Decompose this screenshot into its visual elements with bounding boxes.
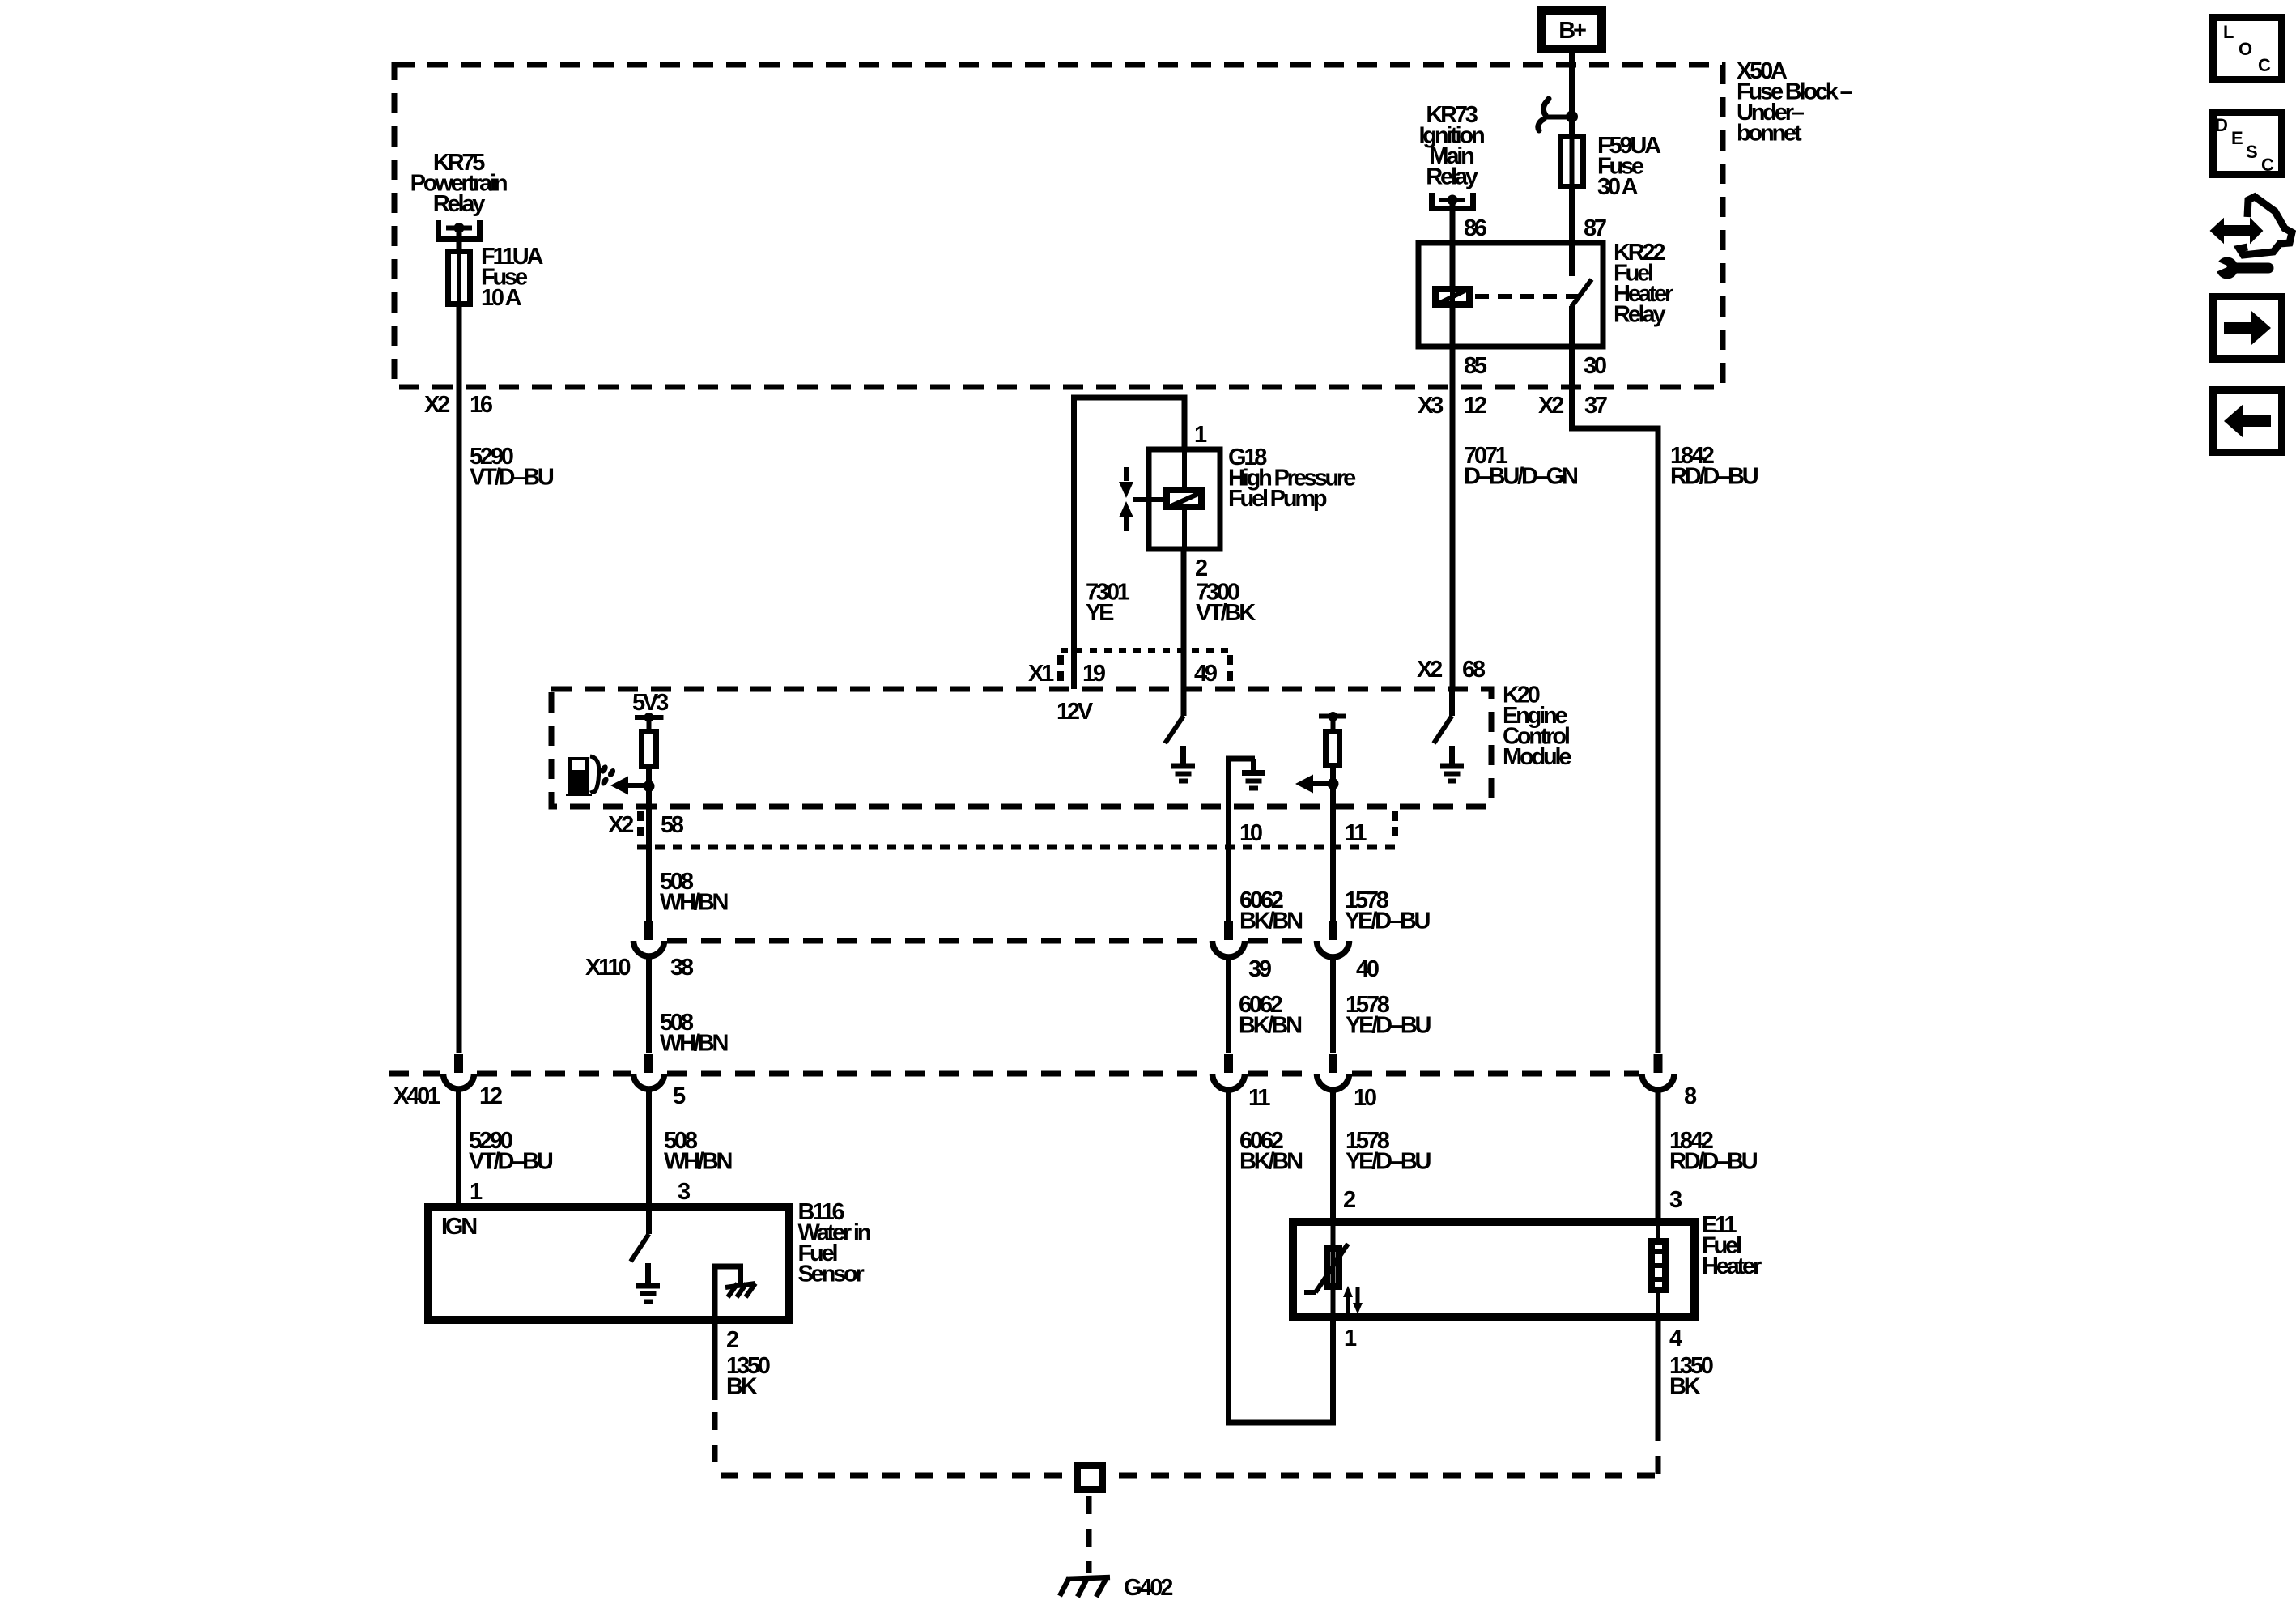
B116 chassis ground branch xyxy=(715,1266,755,1320)
svg-text:bonnet: bonnet xyxy=(1737,121,1802,147)
ground G402 chassis symbol xyxy=(1060,1577,1110,1597)
connector label X3 12 below fuse block xyxy=(1418,393,1486,419)
svg-text:11: 11 xyxy=(1248,1085,1270,1111)
legend icon forward arrow xyxy=(2213,297,2282,360)
svg-text:12: 12 xyxy=(1464,393,1486,419)
label X50A Fuse Block Underbonnet xyxy=(1737,58,1853,147)
wire 508 ECM pin 58 to X110 xyxy=(646,806,652,922)
pin 30 label xyxy=(1584,353,1606,379)
B+ battery terminal xyxy=(1542,11,1602,49)
ECM pull-up resistor (thermistor sense, pin 11) xyxy=(1319,712,1346,806)
svg-text:11: 11 xyxy=(1345,820,1367,846)
svg-text:85: 85 xyxy=(1464,353,1487,379)
dashed ground wire from B116 to G402 xyxy=(715,1412,1070,1475)
signal arrow (thermistor sense) xyxy=(1295,775,1333,794)
pin 2 label G18 xyxy=(1195,555,1207,581)
wire 1842 X401 to E11 pin 3 xyxy=(1656,1089,1661,1222)
svg-text:BK/BN: BK/BN xyxy=(1239,1013,1301,1039)
svg-text:X2: X2 xyxy=(424,392,449,418)
B116 internal switch xyxy=(631,1207,649,1262)
svg-text:L: L xyxy=(2223,22,2234,42)
pin 1 label B116 xyxy=(470,1179,483,1205)
wire label 6062 BK/BN (middle) xyxy=(1239,992,1301,1039)
pin 39 label xyxy=(1248,956,1272,982)
E11 thermistor arrows xyxy=(1343,1286,1363,1314)
svg-text:38: 38 xyxy=(670,955,694,981)
ECM X1 connector dotted box xyxy=(1061,650,1230,683)
wire label 7300 VT/BK xyxy=(1196,580,1256,627)
svg-text:Sensor: Sensor xyxy=(798,1262,865,1287)
svg-text:X401: X401 xyxy=(393,1083,440,1109)
svg-text:X1: X1 xyxy=(1028,661,1054,687)
wire label 1350 BK (left) xyxy=(726,1353,770,1400)
svg-text:G402: G402 xyxy=(1124,1575,1172,1601)
svg-text:10: 10 xyxy=(1239,820,1262,846)
pin 10 label at ECM X2 xyxy=(1239,820,1262,846)
ECM switch to ground (pin 49 driver) xyxy=(1165,689,1184,743)
svg-text:RD/D–BU: RD/D–BU xyxy=(1670,464,1758,490)
wire label 5290 VT/D-BU (upper) xyxy=(470,444,554,491)
svg-text:10: 10 xyxy=(1354,1085,1376,1111)
E11 thermistor xyxy=(1304,1222,1348,1317)
svg-text:X2: X2 xyxy=(608,812,633,838)
svg-text:RD/D–BU: RD/D–BU xyxy=(1669,1149,1758,1175)
wire label 1350 BK (right) xyxy=(1669,1353,1713,1400)
fusible link hook on B+ feed xyxy=(1538,99,1569,130)
relay KR73 terminal bracket xyxy=(1432,193,1473,209)
svg-text:39: 39 xyxy=(1248,956,1272,982)
wire label 1842 RD/D-BU (upper) xyxy=(1670,443,1758,490)
wire 1578 X401 to E11 pin 2 xyxy=(1330,1089,1336,1222)
svg-text:WH/BN: WH/BN xyxy=(664,1149,732,1175)
ground splice junction box xyxy=(1078,1466,1103,1490)
svg-text:86: 86 xyxy=(1464,215,1487,241)
inline connector X401 pin 11 xyxy=(1213,1054,1245,1090)
svg-text:5V3: 5V3 xyxy=(632,690,669,716)
connector label X1 19 49 xyxy=(1028,661,1218,687)
wire 6062 X401 to E11 pin 1 xyxy=(1229,1089,1333,1423)
wire 1350 BK from B116 pin 2 xyxy=(712,1320,718,1400)
connector label X2 58 xyxy=(608,812,684,838)
fuel heater E11 box xyxy=(1293,1222,1694,1317)
junction dot at B+ feed xyxy=(1566,111,1578,123)
inline connector X110 pin 39 xyxy=(1213,921,1245,957)
svg-text:2: 2 xyxy=(726,1327,738,1353)
inline connector X110 pin 40 xyxy=(1317,921,1350,957)
inline connector X401 pin 8 xyxy=(1642,1054,1674,1090)
svg-text:2: 2 xyxy=(1195,555,1207,581)
relay KR73 label xyxy=(1418,102,1484,190)
pin 1 label E11 xyxy=(1344,1326,1357,1351)
pin 5 label xyxy=(673,1083,686,1109)
svg-text:IGN: IGN xyxy=(441,1214,476,1240)
label K20 Engine Control Module xyxy=(1503,683,1571,771)
svg-text:Module: Module xyxy=(1503,744,1571,770)
E11 heater element xyxy=(1648,1222,1669,1317)
label F59UA Fuse 30 A xyxy=(1597,133,1661,200)
pin 40 label xyxy=(1356,956,1379,982)
inline connector X401 pin 5 xyxy=(634,1054,665,1089)
water-in-fuel indicator icon xyxy=(566,756,617,796)
dashed lead to ground G402 xyxy=(1086,1496,1092,1573)
ECM internal 5V3 supply xyxy=(632,690,669,729)
svg-text:VT/D–BU: VT/D–BU xyxy=(469,1149,553,1175)
pin 2 label E11 xyxy=(1343,1187,1355,1213)
wire 1578 ECM pin 11 to X401 pin 10 xyxy=(1330,806,1336,1053)
svg-text:16: 16 xyxy=(470,392,493,418)
svg-text:Fuel Pump: Fuel Pump xyxy=(1228,486,1327,512)
wire 6062 ECM pin 10 to X401 pin 11 xyxy=(1226,806,1231,1053)
svg-text:X2: X2 xyxy=(1417,657,1442,683)
svg-text:Relay: Relay xyxy=(1426,164,1478,190)
svg-text:68: 68 xyxy=(1462,657,1486,683)
wire label 7071 D-BU/D-GN xyxy=(1464,443,1577,490)
wire 1842 relay KR22 pin 30 to E11 pin 3 xyxy=(1572,347,1659,1053)
fuel pump G18 box xyxy=(1149,449,1220,549)
svg-text:37: 37 xyxy=(1584,393,1607,419)
wire 5290 from fuse F11UA down to X401 pin 12 xyxy=(457,307,462,1053)
svg-text:30 A: 30 A xyxy=(1597,174,1639,200)
dashed ground wire from E11 to G402 xyxy=(1108,1423,1658,1475)
legend icon LOC xyxy=(2213,18,2282,80)
svg-text:S: S xyxy=(2246,142,2257,162)
pin 8 label xyxy=(1684,1083,1697,1109)
svg-text:C: C xyxy=(2258,55,2271,75)
wire label 1578 YE/D-BU (middle) xyxy=(1346,992,1431,1039)
connector label X2 68 at ECM xyxy=(1417,657,1486,683)
ECM switch to ground (pin 68 driver) xyxy=(1434,689,1452,743)
svg-text:Relay: Relay xyxy=(433,191,485,217)
relay KR22 switch blade xyxy=(1571,243,1592,347)
svg-text:D: D xyxy=(2215,115,2227,135)
legend icon DESC xyxy=(2213,113,2282,176)
legend icon back arrow xyxy=(2213,390,2282,453)
svg-text:WH/BN: WH/BN xyxy=(660,890,728,916)
label 12V inside ECM xyxy=(1057,699,1094,725)
svg-text:49: 49 xyxy=(1194,661,1218,687)
wire 7071 relay KR22 pin 85 to ECM pin 68 xyxy=(1450,347,1456,689)
wire label 508 WH/BN (upper) xyxy=(660,869,728,916)
svg-text:12: 12 xyxy=(479,1083,502,1109)
svg-text:C: C xyxy=(2261,155,2274,175)
ECM internal ground (pin 10) xyxy=(1229,759,1266,806)
svg-text:40: 40 xyxy=(1356,956,1379,982)
G18 motor coil xyxy=(1167,449,1201,549)
inline connector X401 pin 12 xyxy=(444,1054,474,1089)
wire KR75 to fuse F11UA xyxy=(457,228,462,249)
connector label X2 16 at fuse block xyxy=(424,392,493,418)
inline connector X401 pin 10 xyxy=(1317,1054,1350,1090)
pin 3 label B116 xyxy=(678,1179,691,1205)
relay KR22 coil xyxy=(1435,286,1469,308)
wire label 508 WH/BN (lower) xyxy=(664,1128,732,1175)
svg-text:X2: X2 xyxy=(1538,393,1563,419)
wire 1350 BK from E11 pin 4 xyxy=(1656,1317,1661,1423)
svg-text:YE/D–BU: YE/D–BU xyxy=(1346,1013,1431,1039)
wire label 6062 BK/BN (upper) xyxy=(1239,887,1302,934)
label F11UA Fuse 10 A xyxy=(481,244,544,311)
svg-text:BK: BK xyxy=(726,1374,758,1400)
svg-text:BK/BN: BK/BN xyxy=(1239,1149,1302,1175)
pin 1 label G18 xyxy=(1194,422,1207,448)
signal arrow to fuel icon xyxy=(610,777,648,795)
svg-text:BK/BN: BK/BN xyxy=(1239,908,1302,934)
svg-text:WH/BN: WH/BN xyxy=(660,1031,728,1057)
svg-text:BK: BK xyxy=(1669,1374,1701,1400)
svg-text:58: 58 xyxy=(661,812,684,838)
wire 7300 G18 pin 2 to ECM X1 pin 49 xyxy=(1181,549,1187,689)
svg-text:E: E xyxy=(2231,128,2243,148)
wire label 7301 YE xyxy=(1086,580,1130,627)
wire 5290 X401 to B116 pin 1 xyxy=(456,1089,461,1207)
relay KR22 dashed actuator link xyxy=(1475,294,1579,299)
svg-text:19: 19 xyxy=(1082,661,1106,687)
pin 3 label E11 xyxy=(1669,1187,1682,1213)
svg-text:YE/D–BU: YE/D–BU xyxy=(1345,908,1431,934)
wire label 1578 YE/D-BU (lower) xyxy=(1346,1128,1431,1175)
svg-text:X3: X3 xyxy=(1418,393,1444,419)
pin 4 label E11 xyxy=(1669,1326,1682,1351)
svg-text:D–BU/D–GN: D–BU/D–GN xyxy=(1464,464,1577,490)
connector label X110 38 xyxy=(585,955,694,981)
svg-text:10 A: 10 A xyxy=(481,285,522,311)
label IGN inside B116 xyxy=(441,1214,476,1240)
wire label 1578 YE/D-BU (upper) xyxy=(1345,887,1431,934)
G18 check valve symbol xyxy=(1119,467,1163,531)
label B116 Water in Fuel Sensor xyxy=(798,1199,870,1287)
X401 row dashed line xyxy=(389,1071,1639,1077)
pin 86 label xyxy=(1464,215,1487,241)
wire label 5290 VT/D-BU (lower) xyxy=(469,1128,553,1175)
ECM pull-up resistor (WIF sense) xyxy=(642,732,657,807)
fuse F59UA 30A xyxy=(1561,134,1584,189)
inline connector X110 pin 38 xyxy=(634,921,665,956)
svg-text:12V: 12V xyxy=(1057,699,1094,725)
wire B+ down to fuse F59UA and relay pin 87 xyxy=(1569,53,1575,243)
relay KR75 label xyxy=(410,150,507,217)
connector label X401 12 xyxy=(393,1083,502,1109)
svg-text:2: 2 xyxy=(1343,1187,1355,1213)
wire label 508 WH/BN (middle) xyxy=(660,1010,728,1057)
connector label X2 37 below fuse block xyxy=(1538,393,1607,419)
relay KR75 terminal bracket xyxy=(439,220,480,240)
svg-text:X110: X110 xyxy=(585,955,630,981)
ECM K20 dashed box xyxy=(551,689,1491,806)
legend icon diagnostic tester xyxy=(2211,197,2292,279)
fuse F11UA 10A xyxy=(449,249,470,307)
svg-text:O: O xyxy=(2239,39,2252,59)
pin 11 label at ECM X2 xyxy=(1345,820,1367,846)
svg-text:VT/D–BU: VT/D–BU xyxy=(470,465,554,491)
svg-text:87: 87 xyxy=(1584,215,1606,241)
pin 85 label xyxy=(1464,353,1487,379)
svg-text:YE: YE xyxy=(1086,600,1114,626)
wire coil to pin 85 xyxy=(1450,308,1456,347)
X110 row dashed line xyxy=(667,938,1314,944)
svg-text:VT/BK: VT/BK xyxy=(1196,600,1256,626)
pin 87 label xyxy=(1584,215,1606,241)
svg-text:B+: B+ xyxy=(1558,18,1586,44)
ECM ground symbol (pin 68 driver) xyxy=(1440,746,1464,781)
svg-text:30: 30 xyxy=(1584,353,1606,379)
svg-text:Relay: Relay xyxy=(1614,302,1665,328)
fuse block X50A dashed box xyxy=(394,65,1723,387)
label G18 High Pressure Fuel Pump xyxy=(1228,445,1356,512)
label E11 Fuel Heater xyxy=(1702,1212,1762,1279)
B116 internal ground symbol xyxy=(636,1263,660,1302)
wire loop G18 pin 1 to ECM X1 pin 19 xyxy=(1074,398,1185,689)
wire 508 X401 to B116 pin 3 xyxy=(646,1089,652,1207)
svg-text:YE/D–BU: YE/D–BU xyxy=(1346,1149,1431,1175)
label KR22 Fuel Heater Relay xyxy=(1614,240,1673,328)
svg-text:Heater: Heater xyxy=(1702,1253,1762,1279)
wire label 6062 BK/BN (lower) xyxy=(1239,1128,1302,1175)
junction dot WIF sense xyxy=(644,781,655,792)
wire label 1842 RD/D-BU (lower) xyxy=(1669,1128,1758,1175)
pin 2 label B116 xyxy=(726,1327,738,1353)
relay KR22 box xyxy=(1418,243,1603,347)
pin 11 label at X401 xyxy=(1248,1085,1270,1111)
ECM X2 connector dotted outline xyxy=(637,811,1395,847)
water in fuel sensor B116 box xyxy=(428,1207,789,1320)
wire 508 X110 to X401 pin 5 xyxy=(646,956,652,1053)
junction dot thermistor sense xyxy=(1328,778,1339,789)
wire KR73 to relay KR22 pin 86 xyxy=(1450,200,1456,286)
ECM ground symbol (pin 49 driver) xyxy=(1171,746,1195,781)
pin 10 label at X401 xyxy=(1354,1085,1376,1111)
label G402 xyxy=(1124,1575,1172,1601)
